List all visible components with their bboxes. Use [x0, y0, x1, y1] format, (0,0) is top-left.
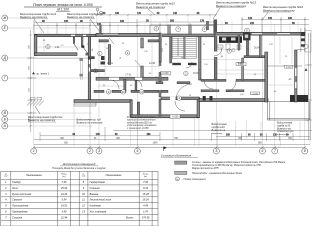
- internal wall y80 mid: [201, 79, 226, 81]
- svg-text:Перегородки - керамзитобетонны: Перегородки - керамзитобетонные блоки: [192, 172, 243, 175]
- south jog vertical: [130, 100, 132, 117]
- svg-text:Всего:: Всего:: [126, 216, 134, 220]
- annotation vent pipe bottom-left: [28, 115, 63, 122]
- south wall left: [74, 100, 132, 103]
- east wall top: [301, 28, 305, 52]
- extension verticals to dims: [74, 104, 310, 146]
- corridor wall y82 segments: [156, 82, 163, 84]
- wall y90 right: [201, 90, 219, 92]
- left grid bubbles: [2, 15, 8, 129]
- svg-text:130: 130: [64, 20, 69, 23]
- right balcony outline: [305, 31, 311, 53]
- svg-text:5: 5: [215, 149, 217, 153]
- svg-text:6: 6: [262, 149, 264, 153]
- svg-text:176: 176: [200, 20, 205, 23]
- room bubble 6: [94, 69, 98, 73]
- chimney protrusion: [214, 20, 218, 33]
- svg-text:8.16: 8.16: [143, 186, 149, 190]
- fireplace block right: [290, 95, 308, 102]
- svg-text:3: 3: [98, 149, 100, 153]
- svg-text:-1.520: -1.520: [252, 93, 259, 95]
- bottom grid bubbles: [31, 148, 308, 154]
- svg-text:План первого этажа на отм. 0.0: План первого этажа на отм. 0.000: [33, 3, 93, 7]
- blind area line below garage: [36, 57, 90, 59]
- top dimension lines: [34, 17, 309, 34]
- small wall y70 near west: [91, 70, 105, 72]
- svg-text:5.54: 5.54: [62, 198, 68, 202]
- title: [24, 3, 102, 12]
- partition x239 upper: [238, 35, 240, 50]
- level box -0.050: [170, 115, 180, 119]
- svg-text:200: 200: [170, 20, 175, 23]
- svg-text:Вывести на отметку: Вывести на отметку: [28, 118, 56, 122]
- annotation bottom right: [277, 122, 294, 136]
- bottom dim lines tiers: [34, 139, 310, 141]
- garage bottom wall: [35, 53, 78, 56]
- svg-text:1-91: 1-91: [55, 46, 60, 49]
- svg-text:140: 140: [248, 17, 253, 20]
- wall h y56 right: [244, 56, 267, 58]
- svg-text:43.20: 43.20: [61, 192, 68, 196]
- wall left of stairs: [170, 37, 172, 64]
- svg-text:17.92: 17.92: [125, 73, 132, 76]
- door jambs south right: [203, 96, 206, 101]
- level box -1.520: [250, 92, 259, 95]
- annotation vent pipe 16 far right: [262, 5, 303, 20]
- right ground triangle: [305, 68, 308, 71]
- svg-text:15.48: 15.48: [142, 192, 149, 196]
- vertical x266: [265, 52, 268, 102]
- svg-text:Наименование: Наименование: [26, 175, 43, 177]
- stairs divider: [184, 37, 186, 59]
- vertical x161: [159, 33, 161, 62]
- svg-text:Гардеробная: Гардеробная: [90, 180, 106, 184]
- door arcs: [109, 38, 236, 111]
- svg-text:М 1:100: М 1:100: [57, 8, 69, 12]
- svg-text:Площадь Дома без учета балконо: Площадь Дома без учета балконов и террас: [52, 167, 106, 170]
- east wall bottom: [295, 50, 297, 102]
- svg-text:Спальня: Спальня: [90, 186, 101, 190]
- dim slash ticks top: [33, 19, 306, 27]
- svg-text:Экспликация помещений: Экспликация помещений: [63, 162, 96, 166]
- svg-text:(м²): (м²): [144, 175, 148, 178]
- svg-text:Постирочная: Постирочная: [12, 204, 29, 208]
- bathroom fixtures: [218, 44, 241, 52]
- svg-text:Лестничный холл: Лестничный холл: [89, 198, 112, 202]
- svg-text:Вывести на отметку: Вывести на отметку: [216, 4, 247, 8]
- legend room number symbol: [175, 177, 179, 181]
- garage door leaf: [74, 44, 78, 51]
- thin line y49.5: [217, 49, 238, 51]
- left dim chain: [27, 30, 36, 132]
- svg-text:отмостку: отмостку: [212, 133, 224, 135]
- svg-text:Санузел: Санузел: [12, 198, 22, 202]
- south low-right vertical: [197, 98, 200, 118]
- annotation vent pipe 13 top-left: [20, 12, 57, 33]
- annotation vent pipe 15a mid-top: [136, 2, 175, 15]
- garage right partition: [73, 36, 75, 43]
- level box mid-right: [236, 63, 246, 66]
- svg-text:21.94: 21.94: [60, 216, 68, 220]
- svg-text:7.06: 7.06: [143, 180, 149, 184]
- svg-text:180: 180: [120, 20, 125, 23]
- vertical x247: [246, 40, 248, 57]
- internal wall h mid-left: [99, 40, 109, 42]
- svg-text:19.52: 19.52: [61, 204, 68, 208]
- vertical x135.5: [135, 80, 137, 91]
- svg-text:Марка прочности М75: Марка прочности М75: [192, 167, 219, 170]
- svg-text:0.000: 0.000: [163, 72, 170, 75]
- dark bathroom cluster: [219, 36, 242, 43]
- north wall right: [215, 32, 305, 35]
- svg-text:174.36: 174.36: [142, 216, 150, 220]
- svg-text:1.97: 1.97: [143, 210, 149, 214]
- svg-text:12.98: 12.98: [149, 62, 156, 65]
- svg-text:4.89: 4.89: [143, 204, 149, 208]
- svg-text:Спальня: Спальня: [12, 216, 23, 220]
- svg-text:Кухня-гостиная: Кухня-гостиная: [12, 192, 32, 196]
- svg-text:160: 160: [288, 17, 293, 20]
- vertical x138 south: [137, 102, 139, 115]
- north wall mid: [96, 33, 160, 36]
- vent shaft above wall x100: [99, 25, 101, 35]
- level box 0.000 right: [285, 65, 293, 68]
- hall bubble 4: [177, 96, 181, 100]
- svg-text:130: 130: [268, 17, 273, 20]
- svg-text:Вывести на отмостку: Вывести на отмостку: [263, 8, 295, 12]
- partition x142: [141, 38, 144, 48]
- stairs: [172, 37, 196, 59]
- svg-text:11.91: 11.91: [107, 62, 113, 65]
- svg-text:Ванная: Ванная: [90, 192, 99, 196]
- small marks left-south: [31, 98, 36, 100]
- svg-text:ур. земли 1: ур. земли 1: [37, 72, 50, 75]
- svg-text:- Номер помещений: - Номер помещений: [182, 178, 206, 181]
- west main wall: [88, 37, 91, 103]
- svg-text:1: 1: [33, 149, 35, 153]
- svg-text:7: 7: [274, 149, 276, 153]
- svg-text:Наименование: Наименование: [106, 175, 123, 177]
- legend swatch walls: [175, 161, 187, 164]
- inner vertical partition x109: [108, 45, 111, 65]
- svg-text:Условные обозначения: Условные обозначения: [161, 154, 192, 158]
- south wall right: [199, 99, 268, 102]
- svg-text:26.84: 26.84: [254, 47, 261, 50]
- svg-text:3.90: 3.90: [62, 210, 68, 214]
- svg-text:8: 8: [304, 149, 306, 153]
- annotation small mid-bottom: [77, 119, 104, 125]
- annotation vent pipe 15 top-right: [213, 0, 256, 19]
- svg-text:Тамбур: Тамбур: [12, 180, 21, 184]
- room area labels: [55, 46, 292, 81]
- svg-text:Холл: Холл: [11, 186, 18, 190]
- ur zemli mark: [32, 72, 50, 76]
- wc fixtures left room: [101, 56, 105, 60]
- north wall band mid-right: [163, 34, 216, 37]
- svg-text:2: 2: [88, 149, 91, 153]
- stamp text block mid: [126, 116, 157, 130]
- partition x242: [242, 58, 244, 80]
- internal wall y91: [94, 90, 104, 92]
- bottom dims mid row: [40, 127, 312, 141]
- annotation vent pipe 14 top-mid: [67, 12, 104, 32]
- svg-text:0.000: 0.000: [286, 67, 292, 69]
- svg-text:4: 4: [136, 149, 138, 153]
- vertical x125: [124, 80, 126, 91]
- svg-text:18.24: 18.24: [142, 198, 149, 202]
- right bubble: [304, 44, 309, 49]
- tambour door leaf: [83, 47, 89, 55]
- room bubbles in plan: [46, 26, 250, 94]
- stairs right wall: [199, 37, 201, 81]
- svg-text:Кладовая: Кладовая: [90, 204, 102, 208]
- grid verticals: [34, 24, 305, 147]
- vent shaft flags: [96, 8, 102, 16]
- svg-text:Гардеробная: Гардеробная: [12, 210, 28, 214]
- grid horizontals: [8, 18, 92, 126]
- right dim chain: [305, 33, 312, 140]
- svg-text:-0.050: -0.050: [172, 115, 179, 118]
- svg-text:Вывести на отметку: Вывести на отметку: [20, 15, 48, 19]
- annotation bottom mid-right: [212, 123, 228, 135]
- partition x260 upper: [259, 35, 261, 57]
- svg-text:(м²): (м²): [62, 175, 66, 178]
- svg-text:210: 210: [250, 22, 255, 25]
- tambour partition x82: [81, 37, 83, 46]
- garage left wall: [35, 35, 37, 56]
- mid top dim line: [95, 13, 217, 16]
- svg-text:15.84: 15.84: [193, 72, 200, 75]
- svg-text:7.95: 7.95: [62, 180, 68, 184]
- level box 0.000 mid: [161, 72, 171, 75]
- terrace bottom right: [268, 102, 310, 121]
- svg-text:Хоз. кладовая: Хоз. кладовая: [89, 210, 107, 214]
- west wall pier: [89, 56, 95, 59]
- east step connector: [297, 49, 305, 51]
- scattered dim texts: [43, 40, 288, 97]
- window lines mid north: [103, 33, 118, 35]
- svg-text:Вывести на отметку: Вывести на отметку: [136, 5, 166, 9]
- internal wall h mid-left2: [148, 40, 161, 42]
- hatch marks bottom-left leader: [27, 101, 44, 115]
- stairs arrow: [177, 38, 179, 56]
- vertical x215 mid: [214, 37, 217, 81]
- svg-text:25.94: 25.94: [60, 186, 68, 190]
- svg-text:9.08: 9.08: [238, 62, 243, 65]
- legend swatch partitions: [175, 171, 187, 174]
- svg-text:Вывести на отметку: Вывести на отметку: [67, 15, 95, 19]
- garage top wall: [35, 34, 97, 37]
- south wall mid-low: [131, 115, 199, 118]
- extension verticals above wall: [41, 21, 298, 34]
- internal big wall y78: [96, 77, 168, 80]
- interior faint dim lines: [38, 36, 294, 86]
- north top cells row: [150, 25, 216, 34]
- south inner wall x161-199: [161, 97, 199, 100]
- terrace edge west: [80, 58, 83, 80]
- svg-text:1540: 1540: [152, 143, 158, 145]
- porch steps bottom-left: [74, 103, 96, 107]
- svg-text:с отметкой -0.050: с отметкой -0.050: [127, 127, 149, 130]
- thin line y66 right: [268, 65, 302, 67]
- wall below stairs: [172, 63, 181, 65]
